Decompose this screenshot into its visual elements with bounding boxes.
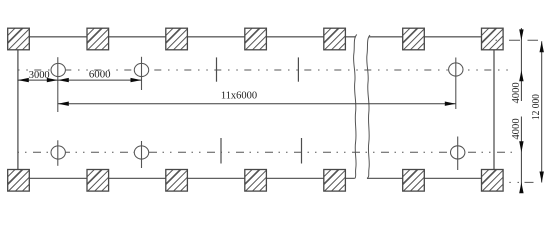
axis tick lower 1: [220, 138, 222, 164]
axis tick lower 2: [301, 138, 303, 164]
top wall axis extension (dash-dot): [496, 39, 539, 41]
extension line upper circle 3: [455, 58, 457, 110]
extension line lower circle 2: [141, 141, 143, 168]
axis circle lower 2: [134, 146, 148, 159]
arrow 11x6000 left: [58, 102, 69, 106]
axis circle upper 1: [51, 63, 65, 76]
dimension line 11x6000: [58, 103, 456, 105]
svg-text:6000: 6000: [89, 70, 111, 81]
dimension line 3000/6000: [18, 79, 142, 81]
extension line lower circle 1: [57, 140, 59, 166]
extension line upper circle 1: [57, 57, 59, 112]
bottom wall axis extension (dash-dot): [509, 181, 533, 183]
svg-text:3000: 3000: [29, 70, 50, 81]
svg-text:11x6000: 11x6000: [221, 90, 257, 101]
break line right: [367, 35, 370, 178]
arrow 11x6000 right: [445, 102, 456, 106]
arrow at left wall (3000 left): [18, 78, 29, 82]
extension line lower circle 3: [457, 137, 459, 171]
axis circle upper 2: [134, 63, 148, 76]
axis circle upper 3: [449, 63, 463, 76]
top wall line: [29, 36, 481, 38]
lower longitudinal axis (dash-dot): [18, 151, 519, 153]
axis tick upper 1: [216, 57, 218, 81]
verticals through circles: [58, 63, 458, 159]
svg-text:4000: 4000: [511, 82, 522, 103]
axis circle lower 3: [451, 146, 465, 159]
outer right dimension line (12 000): [541, 41, 543, 182]
arrow up to bottom wall axis: [519, 182, 523, 193]
arrow 6000 left: [58, 78, 69, 82]
arrow 6000 right: [131, 78, 142, 82]
bottom column row: [1, 163, 29, 191]
inner right dimension line (4000/4000): [520, 28, 522, 191]
svg-text:4000: 4000: [511, 118, 522, 139]
arrow up to upper axis: [519, 70, 523, 81]
extension line upper circle 2: [141, 57, 143, 90]
arrow down to top wall axis: [519, 29, 523, 40]
arrow 12000 top: [540, 41, 544, 52]
axis tick upper 2: [297, 57, 299, 81]
arrow 3000 right: [47, 78, 58, 82]
right wall line: [493, 50, 495, 170]
axis circle lower 1: [51, 146, 65, 159]
upper longitudinal axis (dash-dot): [18, 69, 509, 71]
arrow 12000 bottom: [540, 172, 544, 183]
break line left: [354, 35, 357, 179]
svg-text:12 000: 12 000: [531, 94, 542, 120]
bottom wall line: [29, 177, 481, 179]
top column row: [1, 22, 29, 50]
arrow down to lower axis: [519, 141, 523, 152]
left wall line: [17, 50, 19, 170]
